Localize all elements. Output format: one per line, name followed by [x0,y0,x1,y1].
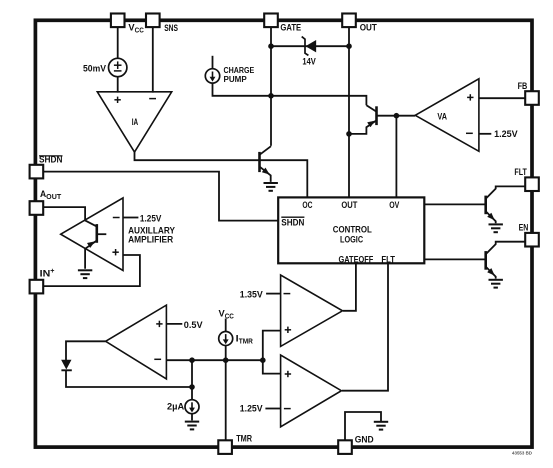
svg-text:FLT: FLT [381,255,395,266]
svg-text:PUMP: PUMP [224,75,248,84]
svg-text:SNS: SNS [164,23,178,34]
svg-text:EN: EN [519,222,529,233]
svg-text:OC: OC [302,200,312,211]
svg-text:LOGIC: LOGIC [340,235,363,246]
svg-text:IA: IA [132,117,138,128]
svg-text:14V: 14V [302,57,316,68]
svg-text:AMPLIFIER: AMPLIFIER [128,235,173,246]
svg-text:TMR: TMR [236,433,252,444]
svg-text:CHARGE: CHARGE [224,66,255,75]
svg-text:1.35V: 1.35V [240,289,264,300]
svg-text:VA: VA [437,111,447,122]
svg-text:0.5V: 0.5V [184,320,203,331]
svg-text:GND: GND [355,435,374,446]
svg-text:FB: FB [518,81,528,92]
svg-text:1.25V: 1.25V [140,214,162,225]
svg-text:FLT: FLT [514,167,527,178]
svg-text:OV: OV [389,200,400,211]
svg-text:43553 BD: 43553 BD [512,451,533,456]
svg-text:OUT: OUT [341,200,357,211]
svg-text:50mV: 50mV [83,64,107,75]
svg-text:1.25V: 1.25V [240,404,263,415]
svg-text:2µA: 2µA [167,402,184,413]
svg-text:1.25V: 1.25V [494,129,518,140]
svg-text:GATE: GATE [280,22,301,33]
svg-text:GATEOFF: GATEOFF [339,255,374,266]
svg-text:OUT: OUT [360,22,377,33]
svg-text:SHDN: SHDN [281,217,304,228]
